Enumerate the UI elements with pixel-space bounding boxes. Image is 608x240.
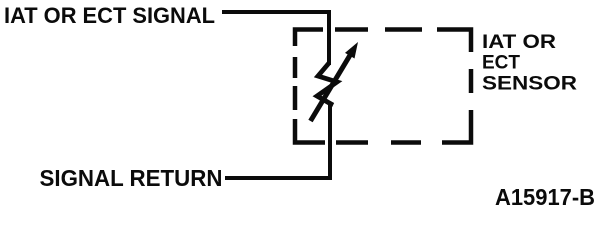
svg-text:SIGNAL RETURN: SIGNAL RETURN	[40, 165, 223, 191]
sensor box bottom edge dash	[391, 140, 421, 145]
svg-text:IAT OR ECT SIGNAL: IAT OR ECT SIGNAL	[4, 3, 215, 28]
sensor box bottom edge dash	[336, 140, 368, 145]
svg-text:SENSOR: SENSOR	[482, 74, 577, 95]
thermistor variable arrow shaft	[311, 53, 352, 121]
sensor box top edge dash	[385, 27, 422, 32]
svg-text:A15917-B: A15917-B	[495, 184, 595, 210]
sensor box top edge dash	[335, 27, 368, 32]
sensor box (dashed enclosure), top-left corner piece	[295, 30, 323, 47]
thermistor arrow head	[345, 42, 358, 59]
sensor box bottom-right corner piece	[442, 110, 471, 143]
svg-text:IAT OR: IAT OR	[482, 32, 556, 53]
sensor box right edge dash	[469, 69, 474, 93]
sensor box bottom-left corner piece	[295, 119, 325, 143]
thermistor RT zigzag element	[317, 63, 337, 106]
wire: signal return line from label to sensor	[225, 105, 330, 178]
svg-text:ECT: ECT	[482, 53, 520, 74]
sensor box top-right corner piece	[437, 30, 471, 53]
sensor box left edge dash	[293, 57, 298, 78]
sensor box left edge dash	[293, 86, 298, 110]
wire: IAT/ECT signal line from label to sensor	[222, 12, 329, 65]
